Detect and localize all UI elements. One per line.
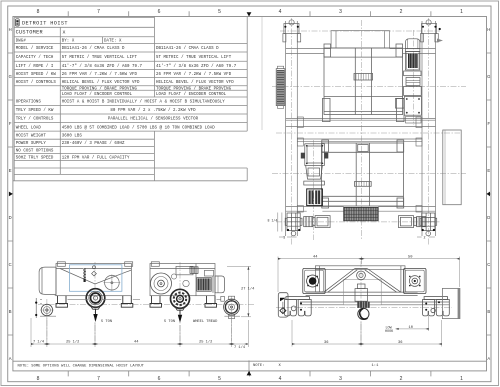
svg-text:8: 8 (37, 9, 40, 15)
svg-text:E: E (487, 168, 490, 173)
svg-text:HOOK: HOOK (385, 330, 394, 334)
svg-text:120 FPM VAR / FULL CAPACITY: 120 FPM VAR / FULL CAPACITY (62, 155, 130, 160)
svg-text:3600 LBS: 3600 LBS (62, 135, 83, 139)
left hoist body (56, 262, 133, 296)
svg-text:36: 36 (398, 341, 402, 345)
bottom crosshatched drum plate (344, 207, 379, 220)
svg-text:2: 2 (400, 9, 403, 15)
svg-text:TORQUE PROVING / BRAKE PROVING: TORQUE PROVING / BRAKE PROVING (62, 86, 138, 91)
svg-text:NO COST OPTIONS: NO COST OPTIONS (16, 149, 54, 153)
svg-text:OPERATIONS: OPERATIONS (16, 101, 42, 105)
svg-text:5 TON: 5 TON (101, 320, 112, 324)
right hoist gear circles (151, 273, 190, 294)
svg-text:2: 2 (424, 235, 426, 239)
trolley drive motor bottom-left (304, 216, 330, 228)
svg-text:CUSTOMER: CUSTOMER (16, 29, 43, 35)
zone numbers top (37, 9, 464, 15)
svg-text:7: 7 (97, 376, 100, 382)
left truck (284, 297, 311, 316)
svg-text:WHEEL TREAD: WHEEL TREAD (193, 320, 218, 324)
svg-text:LOAD FLOAT / ENCODER CONTROL: LOAD FLOAT / ENCODER CONTROL (156, 92, 227, 97)
svg-text:5T METRIC / TRUE VERTICAL LIFT: 5T METRIC / TRUE VERTICAL LIFT (62, 55, 138, 60)
svg-text:TRLY / CONTROLS: TRLY / CONTROLS (16, 117, 54, 122)
svg-text:C: C (9, 262, 12, 267)
svg-text:HOIST / CONTROLS: HOIST / CONTROLS (16, 80, 57, 85)
svg-text:G: G (9, 74, 12, 79)
right hoist feet (150, 296, 217, 308)
svg-text:7 1/4: 7 1/4 (33, 339, 45, 344)
svg-text:X: X (63, 29, 66, 35)
svg-text:D: D (9, 215, 12, 220)
centerlines (38, 262, 255, 341)
svg-text:26 FPM VAR / 7.2KW / 7.5KW VFD: 26 FPM VAR / 7.2KW / 7.5KW VFD (156, 72, 232, 77)
right tall rectangle (panel) (443, 130, 461, 205)
right truck (423, 297, 450, 316)
svg-text:HOIST SPEED / KW: HOIST SPEED / KW (16, 72, 57, 77)
svg-text:36: 36 (324, 341, 328, 345)
svg-text:CAPACITY / TECH: CAPACITY / TECH (16, 55, 54, 60)
right hook (179, 310, 181, 315)
rail-beam junction gussets (297, 117, 422, 212)
svg-text:4500 LBS @ 5T COMBINED LOAD /: 4500 LBS @ 5T COMBINED LOAD / 5700 LBS @… (62, 125, 215, 130)
right gear box (404, 268, 426, 293)
svg-text:50: 50 (408, 256, 412, 260)
svg-text:POWER SUPPLY: POWER SUPPLY (16, 142, 47, 146)
left rail (286, 21, 298, 236)
upper hoist top flange plate (331, 31, 389, 48)
svg-text:LIFT / ROPE / I: LIFT / ROPE / I (16, 64, 54, 69)
svg-text:DATE: X: DATE: X (104, 40, 122, 44)
svg-text:MODEL / SERVICE: MODEL / SERVICE (16, 46, 54, 51)
svg-text:8 1/4: 8 1/4 (268, 218, 278, 222)
svg-text:LOAD FLOAT / ENCODER CONTROL: LOAD FLOAT / ENCODER CONTROL (62, 92, 133, 97)
svg-text:50HZ TRLY SPEED: 50HZ TRLY SPEED (16, 156, 54, 160)
mid beams (286, 118, 436, 141)
svg-text:25 1/2: 25 1/2 (66, 339, 79, 344)
zone ticks left/right (8, 53, 13, 335)
left gear motor box (303, 268, 325, 293)
svg-text:D: D (487, 215, 490, 220)
svg-text:44: 44 (134, 340, 139, 344)
left hook (95, 309, 97, 314)
svg-text:2: 2 (400, 376, 403, 382)
spring/limit detail (83, 269, 85, 283)
right hoist drum sheave (171, 289, 190, 310)
centerlines (276, 261, 452, 345)
svg-text:41'-7" / 3/8 6x36 ZFD / A60 79: 41'-7" / 3/8 6x36 ZFD / A60 79.7 (62, 64, 143, 69)
bottom dimension chain (31, 316, 248, 347)
small vertical dim near left wheel (35, 298, 37, 318)
svg-text:WHEEL LOAD: WHEEL LOAD (16, 126, 42, 130)
27 1/4 dimension (227, 266, 251, 316)
hook block center (355, 284, 368, 301)
svg-text:3: 3 (339, 9, 342, 15)
left hoist feet (56, 296, 133, 308)
svg-text:F: F (488, 121, 491, 126)
svg-text:HOIST A & HOIST B INDIVIDUALLY: HOIST A & HOIST B INDIVIDUALLY / HOIST A… (62, 100, 225, 105)
svg-text:B: B (9, 309, 12, 314)
svg-text:H: H (487, 27, 490, 32)
left hoist: drum end cylinder (39, 267, 56, 294)
svg-text:1: 1 (460, 376, 463, 382)
svg-text:8: 8 (37, 376, 40, 382)
svg-text:G: G (487, 74, 490, 79)
bottom beam (286, 207, 436, 212)
blue subassembly (70, 265, 122, 292)
horizontal lines (14, 17, 154, 19)
svg-text:NOTE:: NOTE: (253, 364, 265, 368)
vertical lines (13, 18, 15, 181)
svg-text:230-460V / 3 PHASE / 60HZ: 230-460V / 3 PHASE / 60HZ (62, 141, 125, 146)
top dimension 44 / 50 (278, 257, 460, 293)
girder (300, 266, 449, 305)
plan dims (278, 213, 435, 238)
table small text (16, 40, 237, 161)
top-right wheel assembly (421, 20, 439, 42)
svg-text:5T METRIC / TRUE VERTICAL LIFT: 5T METRIC / TRUE VERTICAL LIFT (156, 55, 232, 60)
left radiator (276, 66, 285, 108)
upper hoist motor (right) (396, 39, 422, 115)
svg-text:B: B (487, 309, 490, 314)
svg-text:5: 5 (218, 376, 221, 382)
svg-text:DB11A41-26 / CMAA CLASS D: DB11A41-26 / CMAA CLASS D (62, 46, 125, 51)
top-left wheel assembly (283, 20, 301, 42)
svg-text:C: C (487, 262, 490, 267)
zone ticks bottom (68, 371, 431, 377)
svg-text:4: 4 (279, 9, 282, 15)
svg-text:A: A (487, 356, 490, 361)
svg-text:7 1/4: 7 1/4 (234, 345, 246, 350)
svg-text:TRLY SPEED / KW: TRLY SPEED / KW (16, 108, 54, 113)
logo mark (16, 19, 20, 26)
right rail (422, 21, 436, 236)
svg-text:DWG#: DWG# (16, 40, 27, 44)
svg-text:7: 7 (97, 9, 100, 15)
svg-text:PARALLEL HELICAL / SENSORLESS: PARALLEL HELICAL / SENSORLESS VECTOR (108, 117, 199, 122)
lower hoist motor assembly (left, pointing down) (304, 144, 325, 185)
motor fins (408, 54, 418, 69)
svg-text:10: 10 (409, 326, 413, 330)
bottom-left wheel assembly (285, 213, 302, 236)
svg-text:TORQUE PROVING / BRAKE PROVING: TORQUE PROVING / BRAKE PROVING (156, 86, 232, 91)
bottom dim 36 / 36 (292, 320, 442, 347)
svg-text:4: 4 (279, 376, 282, 382)
svg-text:A: A (9, 356, 12, 361)
svg-text:6: 6 (158, 9, 161, 15)
svg-text:H: H (9, 27, 12, 32)
svg-text:6: 6 (158, 376, 161, 382)
svg-text:HOIST WEIGHT: HOIST WEIGHT (16, 135, 47, 139)
svg-text:3: 3 (339, 376, 342, 382)
left bumper line (261, 17, 263, 130)
top beam (286, 49, 436, 54)
svg-text:27 1/4: 27 1/4 (241, 287, 255, 292)
trolley drive motor bottom-right (399, 216, 426, 228)
centerlines (272, 18, 466, 245)
svg-text:DB11A41-26 / CMAA CLASS D: DB11A41-26 / CMAA CLASS D (156, 46, 219, 51)
A-frame braces (324, 269, 401, 293)
svg-text:F: F (9, 121, 12, 126)
svg-text:1: 1 (460, 9, 463, 15)
svg-text:25 1/2: 25 1/2 (199, 339, 212, 344)
svg-text:BY: X: BY: X (62, 40, 75, 44)
brake resistor (dark) (307, 189, 323, 206)
svg-text:HELICAL BEVEL / FLUX VECTOR VF: HELICAL BEVEL / FLUX VECTOR VFD (62, 80, 140, 85)
right end wheel (221, 296, 240, 318)
lower hoist drum box (322, 140, 404, 208)
svg-text:80 FPM VAR / 2 x .75KW / 2.2KW: 80 FPM VAR / 2 x .75KW / 2.2KW VFD (110, 108, 196, 113)
svg-text:41'-7" / 3/8 6x36 ZFD / A60 79: 41'-7" / 3/8 6x36 ZFD / A60 79.7 (156, 64, 237, 69)
upper hoist drum box (323, 44, 405, 122)
svg-text:44: 44 (313, 256, 318, 260)
svg-text:E: E (9, 168, 12, 173)
hook (358, 308, 369, 319)
svg-text:26 FPM VAR / 7.2KW / 7.5KW VFD: 26 FPM VAR / 7.2KW / 7.5KW VFD (62, 72, 138, 77)
right hoist motor (197, 276, 225, 293)
right hoist body (150, 262, 215, 296)
top ring (357, 271, 366, 280)
zone numbers bottom (37, 376, 464, 382)
rail lines (40, 296, 140, 317)
right rail segment (217, 300, 241, 317)
far-left conductor box (278, 293, 288, 317)
left hoist bottom sheave (86, 289, 105, 309)
svg-text:5 TON: 5 TON (164, 320, 175, 324)
svg-text:NOTE: SOME OPTIONS WILL CHAN: NOTE: SOME OPTIONS WILL CHANGE DIMENSION… (18, 364, 145, 368)
svg-text:5: 5 (218, 9, 221, 15)
svg-text:DETROIT HOIST: DETROIT HOIST (22, 20, 68, 26)
svg-text:1:1: 1:1 (372, 364, 380, 368)
left end wheel (40, 303, 54, 317)
svg-text:HELICAL BEVEL / FLUX VECTOR VF: HELICAL BEVEL / FLUX VECTOR VFD (156, 80, 234, 85)
bottom-right wheel assembly (420, 213, 437, 236)
svg-text:3: 3 (283, 235, 285, 239)
far-right panel (442, 288, 460, 318)
